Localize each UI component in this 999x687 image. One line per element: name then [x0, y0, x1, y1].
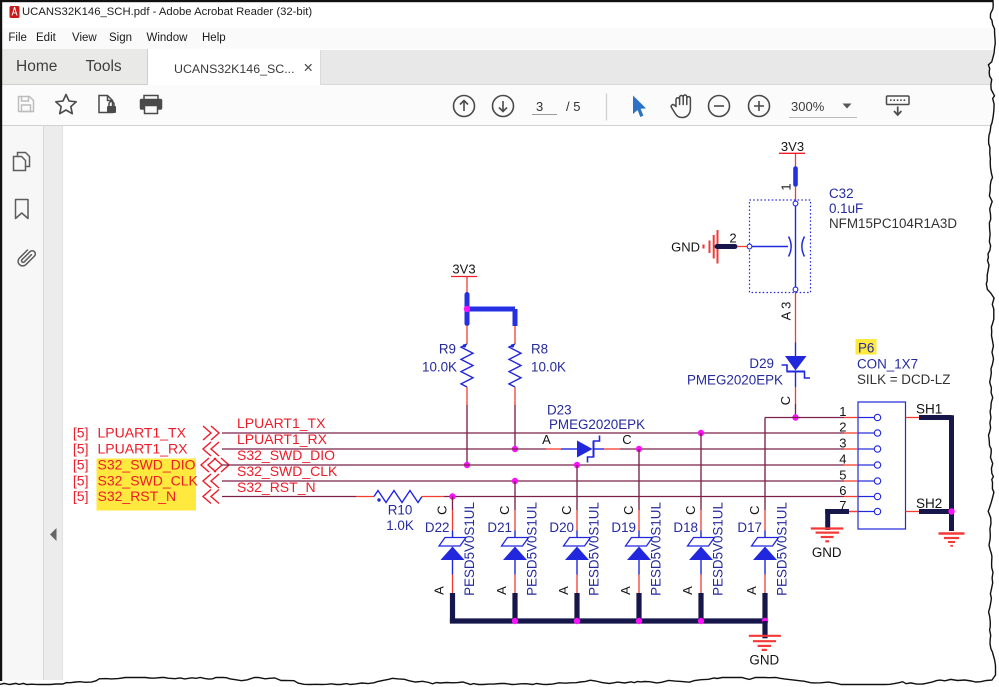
svg-text:D18: D18: [673, 520, 698, 535]
svg-text:C: C: [621, 506, 636, 515]
svg-text:1.0K: 1.0K: [386, 518, 414, 533]
wire thick: [825, 509, 849, 514]
svg-text:S32_SWD_CLK: S32_SWD_CLK: [98, 473, 199, 489]
svg-text:5: 5: [839, 468, 846, 483]
svg-text:3V3: 3V3: [452, 262, 475, 277]
svg-text:A: A: [618, 586, 633, 595]
svg-text:SILK = DCD-LZ: SILK = DCD-LZ: [857, 372, 950, 387]
TVS diode D19 PESD5V0S1UL: [638, 449, 640, 510]
svg-text:A: A: [556, 586, 571, 595]
node: [636, 446, 642, 452]
svg-text:2: 2: [729, 231, 736, 246]
svg-text:A: A: [494, 586, 509, 595]
resistor R8: [511, 344, 514, 347]
wire thick to gnd bus: [636, 593, 641, 624]
highlight yellow: [97, 459, 197, 511]
wire thick gnd tie: [717, 244, 735, 249]
TVS diode D22 PESD5V0S1UL: [452, 497, 454, 511]
svg-text:C: C: [622, 432, 631, 447]
svg-text:C: C: [778, 396, 793, 405]
wire S32_RST_N right: [444, 496, 844, 498]
node: [948, 508, 954, 514]
pin 3: [858, 448, 874, 450]
svg-text:A: A: [542, 432, 551, 447]
node D21/CLK: [512, 478, 518, 484]
svg-text:C: C: [497, 506, 512, 515]
svg-text:PMEG2020EPK: PMEG2020EPK: [549, 417, 645, 432]
node D20/DIO: [574, 462, 580, 468]
wire LPUART1_RX left: [222, 448, 546, 450]
svg-text:C32: C32: [829, 186, 854, 201]
resistor R10 1.0K: [356, 496, 374, 498]
svg-text:[5]: [5]: [73, 488, 89, 504]
wire thick: [762, 621, 767, 638]
svg-text:NFM15PC104R1A3D: NFM15PC104R1A3D: [829, 216, 957, 231]
svg-text:CON_1X7: CON_1X7: [857, 357, 918, 372]
svg-text:R8: R8: [531, 342, 548, 357]
svg-text:SH1: SH1: [916, 402, 942, 417]
svg-text:C: C: [559, 506, 574, 515]
svg-text:PESD5V0S1UL: PESD5V0S1UL: [587, 502, 602, 596]
svg-text:PESD5V0S1UL: PESD5V0S1UL: [462, 502, 477, 596]
chevrons S32_RST_N: [203, 490, 211, 504]
node D18/TX: [698, 430, 704, 436]
svg-text:D21: D21: [487, 520, 512, 535]
svg-text:S32_SWD_DIO: S32_SWD_DIO: [98, 457, 196, 473]
svg-text:PESD5V0S1UL: PESD5V0S1UL: [711, 502, 726, 596]
svg-text:PESD5V0S1UL: PESD5V0S1UL: [525, 502, 540, 596]
svg-text:PESD5V0S1UL: PESD5V0S1UL: [775, 502, 790, 596]
svg-text:C: C: [683, 506, 698, 515]
svg-text:[5]: [5]: [73, 441, 89, 457]
svg-text:PESD5V0S1UL: PESD5V0S1UL: [649, 502, 664, 596]
wire pin1 vertical (D17 col): [764, 418, 766, 511]
ground GND (bus): [749, 635, 781, 637]
svg-text:R10: R10: [388, 503, 413, 518]
svg-text:SH2: SH2: [916, 496, 942, 511]
svg-text:A: A: [432, 586, 447, 595]
wire S32_RST_N left: [222, 496, 356, 498]
ground GND (pin7): [849, 511, 858, 513]
TVS diode D20 PESD5V0S1UL: [576, 465, 578, 510]
svg-text:[5]: [5]: [73, 457, 89, 473]
wire thick to gnd bus: [450, 593, 455, 624]
svg-text:[5]: [5]: [73, 425, 89, 441]
svg-text:R9: R9: [439, 342, 456, 357]
wire: [737, 246, 747, 248]
wire S32_SWD_CLK: [222, 480, 844, 482]
svg-text:A: A: [680, 586, 695, 595]
svg-text:D22: D22: [425, 520, 450, 535]
svg-text:D20: D20: [549, 520, 574, 535]
wire LPUART1_TX: [222, 432, 844, 434]
wire: [466, 387, 468, 405]
window border: [0, 0, 993, 2]
TVS diode D18 PESD5V0S1UL: [700, 433, 702, 510]
wire R9 to S32_SWD_DIO: [466, 405, 468, 465]
wire to pin1 net: [795, 404, 797, 418]
wire S32_SWD_DIO: [222, 464, 844, 466]
svg-text:GND: GND: [749, 653, 779, 668]
node bus junction: [574, 618, 580, 624]
TVS diode D21 PESD5V0S1UL: [514, 481, 516, 510]
chevrons S32_SWD_DIO: [201, 458, 209, 472]
node bus junction: [698, 618, 704, 624]
svg-text:PMEG2020EPK: PMEG2020EPK: [687, 373, 783, 388]
svg-text:D29: D29: [749, 356, 774, 371]
wire thick blue pin1: [793, 169, 798, 185]
wire pin1 net: [765, 417, 844, 419]
wire thick SH2: [919, 509, 952, 514]
chevrons S32_SWD_CLK: [203, 474, 211, 488]
svg-text:D17: D17: [737, 520, 762, 535]
wire thick gnd bus: [450, 618, 765, 623]
chevrons LPUART1_TX: [203, 426, 211, 440]
svg-text:C: C: [435, 506, 450, 515]
wire LPUART1_RX right: [620, 448, 844, 450]
connector P6 CON_1X7: [856, 339, 877, 355]
svg-text:1: 1: [779, 183, 794, 190]
svg-text:A: A: [744, 586, 759, 595]
wire: [466, 326, 468, 345]
svg-text:A 3: A 3: [779, 302, 794, 321]
pin 3 wire / net A 3: [795, 293, 797, 343]
svg-text:GND: GND: [671, 240, 700, 255]
node: [792, 414, 798, 420]
svg-text:1: 1: [839, 404, 846, 419]
chevrons LPUART1_RX: [203, 442, 211, 456]
svg-text:D23: D23: [547, 403, 572, 418]
node bus junction: [636, 618, 642, 624]
wire: [466, 277, 468, 293]
svg-text:6: 6: [839, 483, 846, 498]
svg-text:0.1uF: 0.1uF: [829, 201, 863, 216]
wire thick to gnd bus: [512, 593, 517, 624]
ground (SH): [939, 532, 965, 534]
wire thick blue 3V3 tee: [465, 295, 470, 324]
svg-text:2: 2: [839, 420, 846, 435]
svg-text:LPUART1_TX: LPUART1_TX: [98, 425, 187, 441]
pin 2: [858, 432, 874, 434]
wire thick SH1: [919, 415, 952, 420]
node: [512, 446, 518, 452]
wire thick to gnd bus: [762, 593, 767, 624]
node: [464, 462, 470, 468]
wire thick to gnd bus: [574, 593, 579, 624]
node 3V3 junction: [464, 306, 470, 312]
capacitor C32: [750, 200, 811, 293]
svg-text:LPUART1_TX: LPUART1_TX: [237, 415, 326, 431]
wire: [795, 186, 797, 201]
pin 5: [858, 480, 874, 482]
svg-text:C: C: [747, 506, 762, 515]
wire: [795, 154, 797, 168]
pin 4: [858, 464, 874, 466]
svg-text:P6: P6: [858, 341, 874, 356]
resistor R1 R9: [463, 344, 466, 347]
svg-text:S32_RST_N: S32_RST_N: [98, 488, 177, 504]
svg-text:4: 4: [839, 452, 846, 467]
svg-text:3: 3: [839, 436, 846, 451]
wire R8 to LPUART1_RX: [514, 405, 516, 449]
node bus junction: [512, 618, 518, 624]
diode D29 PMEG2020EPK: [795, 343, 797, 357]
svg-text:3V3: 3V3: [781, 139, 804, 154]
pin 6: [858, 496, 874, 498]
sidebar collapse handle: [50, 528, 57, 541]
node bus junction: [762, 618, 768, 624]
svg-text:10.0K: 10.0K: [531, 360, 566, 375]
svg-text:LPUART1_RX: LPUART1_RX: [98, 441, 189, 457]
pin 1: [858, 417, 874, 419]
TVS diode D17 PESD5V0S1UL: [764, 510, 766, 531]
svg-text:[5]: [5]: [73, 473, 89, 489]
svg-text:10.0K: 10.0K: [422, 360, 457, 375]
svg-text:D19: D19: [611, 520, 636, 535]
pin 7: [858, 511, 874, 513]
toolbar icons: [10, 6, 20, 18]
node: [449, 493, 455, 499]
svg-text:GND: GND: [812, 545, 842, 560]
wire thick to gnd bus: [698, 593, 703, 624]
